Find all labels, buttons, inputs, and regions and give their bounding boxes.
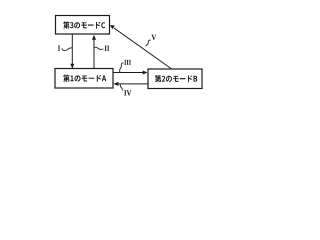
leader squiggle V <box>146 40 151 46</box>
label I <box>58 46 60 51</box>
box B (second mode B) <box>148 69 202 89</box>
label II <box>105 46 110 51</box>
arrow IV head <box>113 82 118 86</box>
text 第2のモードB <box>155 75 198 82</box>
arrow V wire (B diagonal up to C) <box>114 28 172 69</box>
leader squiggle III <box>120 63 124 72</box>
arrow III head <box>143 71 148 75</box>
label III <box>124 60 131 65</box>
box A (first mode A) <box>55 69 113 89</box>
box C (third mode C) <box>56 16 110 35</box>
arrow IV wire (B left to A) <box>117 83 148 85</box>
leader squiggle II <box>94 47 103 49</box>
arrow V head <box>110 25 115 29</box>
arrow II head <box>92 35 96 40</box>
arrow I head <box>70 64 74 69</box>
label V <box>151 35 156 40</box>
arrow III wire (A right to B) <box>113 72 144 74</box>
leader squiggle IV <box>120 84 122 90</box>
arrow II wire (A up to C) <box>93 39 95 69</box>
leader squiggle I <box>62 48 73 51</box>
label IV <box>124 90 131 95</box>
arrow I wire (C down to A) <box>71 34 73 65</box>
text 第3のモードC <box>63 21 105 28</box>
text 第1のモードA <box>63 75 106 82</box>
